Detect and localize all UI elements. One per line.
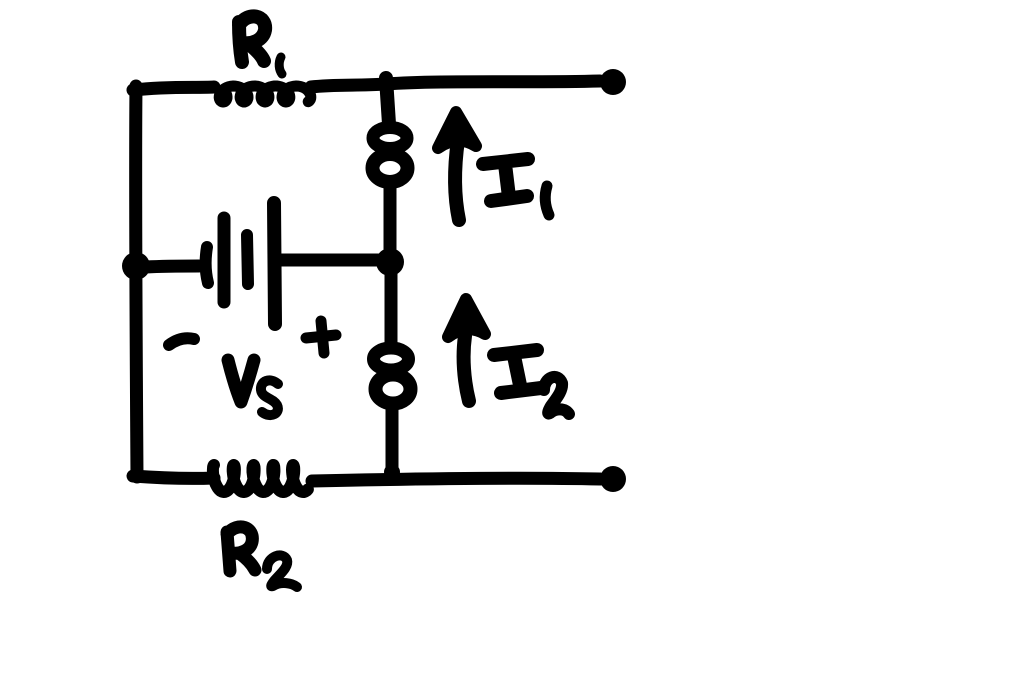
battery Vs: plate 4 (tall, positive): [274, 203, 275, 324]
coil loop symbol (upper, in I1 branch): lower ring: [373, 154, 408, 182]
node: bottom-right terminal dot: [600, 466, 626, 492]
battery Vs: plate 1 (short, negative): [206, 247, 208, 283]
wire: lower loop to bottom wire: [386, 409, 399, 477]
wire: upper loop to middle junction: [384, 188, 397, 252]
node: bottom T-junction bump: [384, 464, 400, 480]
coil loop symbol (upper, in I1 branch): upper ring: [373, 128, 407, 149]
arrow: current I1 direction (shaft): [455, 140, 459, 220]
wire: left junction to battery negative plate: [146, 266, 199, 267]
battery Vs: plate 2 (tall): [218, 218, 231, 302]
label I1: letter I: [483, 159, 528, 201]
wire: top-left segment (corner to R1): [133, 87, 214, 90]
node: left junction dot: [122, 252, 150, 280]
node: top-right terminal dot: [600, 69, 626, 95]
wire: left vertical side: [136, 86, 137, 477]
coil loop symbol (lower, in I2 branch): upper ring: [374, 348, 409, 370]
label R2: letter R: [227, 527, 255, 571]
label R1: letter R: [239, 16, 265, 62]
wire: bottom-left segment (corner to R2): [133, 476, 214, 478]
resistor R2 (squiggle): [213, 465, 308, 492]
wire: top junction down to upper loop: [386, 78, 389, 124]
battery Vs: plate 3 (short): [247, 235, 248, 284]
wire: top junction to right terminal: [386, 81, 600, 84]
node: middle junction dot: [376, 248, 404, 276]
label I2: subscript 2: [544, 377, 569, 414]
wire: middle junction down to lower loop: [385, 272, 398, 346]
arrow: current I2 direction (shaft): [464, 336, 469, 401]
label: plus sign of Vs (horizontal stroke): [306, 335, 336, 338]
label Vs: subscript s: [261, 380, 278, 415]
label Vs: letter V: [228, 360, 254, 402]
resistor R1 (squiggle): [219, 86, 311, 102]
wire: R1 to top junction: [311, 84, 386, 87]
label: plus sign of Vs (vertical stroke): [321, 321, 324, 353]
label I1: subscript 1: [545, 186, 549, 215]
label: minus sign of Vs: [169, 338, 194, 345]
wire: R2 to bottom right terminal: [312, 478, 600, 481]
coil loop symbol (lower, in I2 branch): lower ring: [376, 375, 411, 404]
label R1: subscript 1: [279, 57, 282, 74]
arrow: current I1 direction (head): [438, 112, 476, 148]
node: top T-junction: [377, 76, 393, 92]
arrow: current I2 direction (head): [448, 299, 485, 337]
label R2: subscript 2: [267, 555, 297, 587]
wire: battery positive to middle junction: [281, 254, 384, 267]
label I2: letter I: [494, 350, 541, 393]
